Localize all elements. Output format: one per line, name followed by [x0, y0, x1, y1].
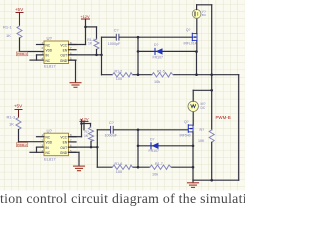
wire gate rail bottom (right of cap): [114, 129, 188, 131]
svg-text:1K: 1K: [84, 134, 89, 138]
capacitor C2: [105, 121, 118, 138]
svg-text:EL817: EL817: [44, 156, 56, 161]
node rail/divider junction: [137, 36, 140, 39]
svg-text:EN: EN: [63, 49, 68, 53]
svg-text:VCC: VCC: [60, 136, 67, 140]
node +12V rail junction: [80, 122, 83, 125]
wire to pin2: [19, 38, 21, 52]
schematic background: [0, 0, 245, 191]
node junction at VCC tee: [84, 26, 87, 29]
svg-text:VDD: VDD: [46, 141, 53, 145]
diode D1: [153, 43, 164, 60]
svg-text:VCC: VCC: [60, 43, 67, 47]
wire bottom resistor rail: [97, 166, 193, 168]
svg-text:tion control circuit diagram o: tion control circuit diagram of the simu…: [0, 191, 245, 206]
NC tie pins 3-4 (bottom): [30, 147, 44, 152]
resistor R2-4: [84, 127, 94, 141]
wire right rail with pulldown: [211, 75, 213, 130]
svg-text:OUT: OUT: [60, 146, 67, 150]
ground (bottom IC): [74, 166, 85, 171]
svg-text:NC: NC: [46, 59, 51, 63]
resistor R1-3: [7, 115, 22, 130]
svg-text:EL817: EL817: [44, 63, 56, 68]
wire rail below resistor: [211, 142, 213, 180]
wire motor top loop: [193, 90, 212, 101]
wire GND pin: [69, 60, 76, 82]
wire OUT pin row: [69, 54, 102, 56]
svg-text:R1-3: R1-3: [7, 115, 16, 120]
diode D2: [149, 137, 160, 153]
svg-text:DC: DC: [201, 106, 206, 110]
motor M1: [188, 101, 206, 111]
caption strip: [0, 191, 245, 207]
svg-text:PWM-1: PWM-1: [17, 52, 27, 56]
svg-text:U?: U?: [47, 128, 53, 133]
svg-text:1000uF: 1000uF: [105, 134, 118, 138]
svg-text:1K: 1K: [9, 122, 14, 127]
buzzer Y1: [192, 10, 206, 19]
node R2-4/OUT junction (bottom): [90, 146, 93, 149]
svg-text:PWM-B: PWM-B: [216, 115, 231, 120]
svg-text:FR107: FR107: [149, 149, 160, 153]
node diode row tee (bottom): [137, 145, 140, 148]
svg-text:PWM-2: PWM-2: [17, 143, 27, 147]
wire gate rail (left of cap): [102, 36, 116, 38]
wire drain to motor: [192, 112, 194, 126]
resistor R1-2: [113, 70, 133, 82]
svg-text:C?: C?: [109, 121, 114, 125]
wire diode row (bottom): [138, 145, 193, 147]
svg-text:IRF540: IRF540: [180, 134, 191, 138]
svg-text:Q?: Q?: [186, 28, 191, 32]
svg-text:GND: GND: [60, 59, 68, 63]
node OUT junction (bottom): [96, 146, 99, 149]
transistor Q2: [180, 120, 194, 138]
node diode row tee: [137, 50, 140, 53]
node rail/divider junction (bottom): [137, 129, 140, 132]
ground (top circuit): [70, 83, 81, 88]
wire +12V branch to R1-4: [86, 27, 97, 39]
svg-text:NC: NC: [46, 151, 51, 155]
port PWM-1: [16, 52, 28, 56]
svg-text:C?: C?: [114, 28, 119, 32]
svg-text:EN: EN: [63, 141, 68, 145]
svg-text:10k: 10k: [154, 80, 160, 84]
wire R1-4 to OUT row: [96, 50, 98, 55]
wire OUT vertical: [101, 37, 103, 75]
svg-text:D?: D?: [154, 43, 158, 47]
svg-text:100: 100: [116, 170, 122, 174]
svg-text:R1-6: R1-6: [115, 162, 123, 166]
wire ground rail: [193, 179, 239, 181]
svg-text:IRFL014: IRFL014: [184, 42, 197, 46]
wire OUT vertical (bottom): [96, 130, 98, 167]
wire diode row: [138, 50, 197, 52]
node rail junctions: [137, 73, 140, 76]
svg-text:R?: R?: [200, 128, 205, 132]
svg-text:GND: GND: [60, 151, 68, 155]
wire drain to buzzer: [196, 18, 198, 33]
IC U1 driver (EL817): [37, 36, 77, 68]
wire divider vertical: [137, 37, 139, 74]
svg-text:D?: D?: [150, 137, 154, 141]
resistor R2-3: [150, 162, 171, 176]
node MOSFET source junction: [195, 50, 198, 53]
svg-text:1K: 1K: [6, 33, 11, 38]
svg-text:U?: U?: [47, 36, 53, 41]
power +5V (bottom): [14, 103, 23, 117]
svg-text:100: 100: [116, 77, 122, 81]
svg-text:10K: 10K: [198, 139, 205, 143]
svg-text:+5V: +5V: [15, 7, 24, 12]
power +12V (bottom): [79, 116, 89, 130]
wire source down to ground rail: [192, 132, 194, 180]
wire right edge vertical: [238, 75, 240, 181]
node motor tap junction: [210, 89, 213, 92]
svg-text:FR107: FR107: [153, 55, 164, 59]
svg-text:R1-7: R1-7: [155, 162, 163, 166]
wire divider vertical (bottom): [137, 130, 139, 167]
svg-text:+12V: +12V: [79, 116, 89, 121]
resistor R2-5 (10K pulldown): [198, 128, 214, 143]
port PWM-2: [16, 143, 28, 147]
node ground rail junction: [210, 179, 213, 182]
wire gate rail bottom (left of cap): [97, 129, 110, 131]
svg-text:+5V: +5V: [14, 103, 23, 108]
svg-text:BU: BU: [202, 13, 206, 17]
node MOSFET source junction (bottom): [192, 145, 195, 148]
svg-text:10k: 10k: [152, 172, 158, 176]
svg-text:1000pF: 1000pF: [108, 42, 121, 46]
wire R2-4 to OUT row: [90, 141, 92, 147]
capacitor C1: [108, 28, 121, 46]
svg-text:+12V: +12V: [80, 14, 90, 19]
wire VCC pin (bottom): [69, 120, 82, 137]
IC U2 driver (EL817): [37, 128, 77, 161]
svg-text:R1-1: R1-1: [3, 25, 12, 30]
wire VCC pin to +12V: [69, 19, 86, 45]
power +5V (top): [15, 7, 24, 26]
svg-text:NC: NC: [46, 136, 51, 140]
resistor R1-4: [87, 38, 99, 49]
resistor R2-2: [113, 162, 133, 174]
wire source down to rail: [196, 40, 198, 51]
transistor Q1: [184, 28, 198, 46]
svg-text:R1-2: R1-2: [115, 70, 123, 74]
node OUT junction: [100, 54, 103, 57]
wire gate rail (right of cap): [119, 36, 192, 38]
resistor R1-5: [152, 70, 173, 85]
wire bottom rail (top circuit): [102, 74, 239, 76]
svg-text:VDD: VDD: [46, 49, 53, 53]
power +12V (top): [80, 14, 90, 19]
wire GND pin (bottom IC): [69, 152, 80, 166]
wire to pin2 (bottom IC): [19, 130, 45, 142]
wire OUT pin row (bottom): [69, 146, 98, 148]
svg-text:R1-5: R1-5: [157, 70, 165, 74]
NC tie pins 3-4: [30, 55, 44, 60]
svg-text:OUT: OUT: [60, 54, 67, 58]
node R1-4/OUT junction: [95, 54, 98, 57]
wire buzzer top loop: [197, 5, 212, 75]
svg-text:NC: NC: [46, 43, 51, 47]
node bottom rail junctions: [137, 166, 140, 169]
ground (bottom right): [188, 180, 199, 187]
svg-text:Q?: Q?: [184, 120, 189, 124]
resistor R1-1: [3, 25, 22, 39]
svg-text:1K: 1K: [88, 42, 93, 46]
